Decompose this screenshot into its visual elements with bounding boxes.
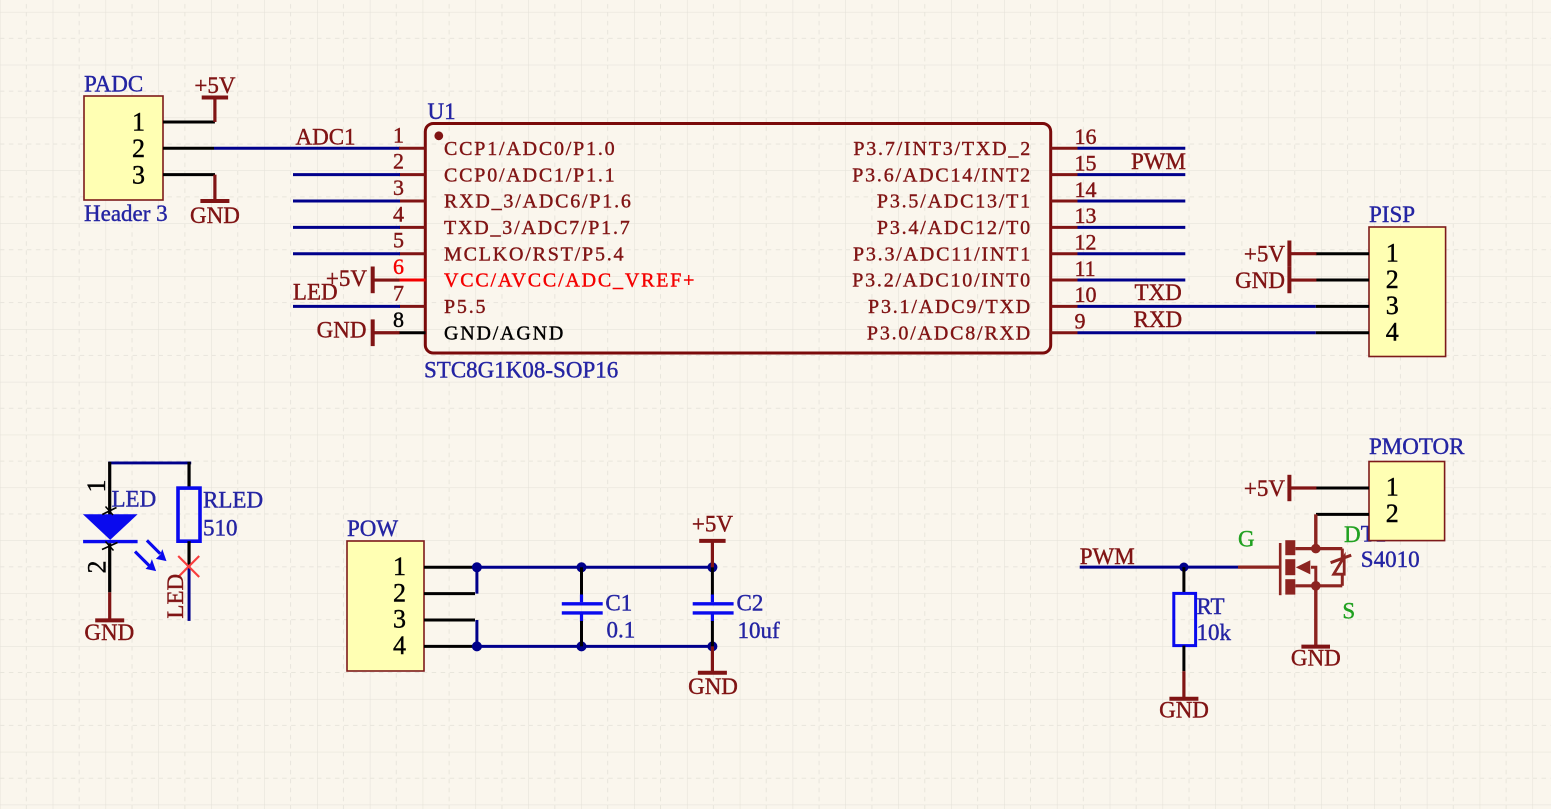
capacitor C2 plates bbox=[693, 604, 734, 613]
svg-text:U1: U1 bbox=[428, 99, 456, 124]
junction bbox=[472, 641, 482, 651]
transistor T1 channel segments bbox=[1285, 540, 1295, 594]
pin PISP-4 bbox=[1316, 331, 1369, 334]
svg-text:6: 6 bbox=[393, 254, 404, 279]
ground symbol bbox=[1169, 671, 1198, 699]
wire from U1 pin 16 bbox=[1078, 147, 1186, 150]
pin POW-3 bbox=[424, 619, 475, 622]
svg-text:P3.0/ADC8/RXD: P3.0/ADC8/RXD bbox=[867, 322, 1032, 344]
capacitor C1 plates bbox=[562, 604, 603, 613]
pin U1-1 stub bbox=[399, 147, 426, 150]
capacitor C1 bottom stub bbox=[580, 614, 583, 622]
wire to U1 pin 2 bbox=[293, 173, 400, 176]
capacitor C2 bottom stub bbox=[711, 614, 714, 622]
power +5V bar (PMOTOR pin1) bbox=[1289, 475, 1316, 501]
wire POW pin2 to rail bbox=[475, 567, 478, 593]
pin PMOTOR-2 bbox=[1316, 513, 1369, 516]
wire net LED vertical bbox=[188, 567, 191, 621]
svg-text:1: 1 bbox=[82, 480, 111, 493]
svg-text:GND: GND bbox=[1235, 268, 1285, 293]
capacitor C1 top stub bbox=[580, 595, 583, 603]
svg-text:+5V: +5V bbox=[692, 512, 733, 537]
svg-text:8: 8 bbox=[393, 307, 404, 332]
svg-text:4: 4 bbox=[1386, 317, 1399, 346]
svg-text:P3.7/INT3/TXD_2: P3.7/INT3/TXD_2 bbox=[853, 138, 1032, 160]
LED D1 pin 2 tick mark bbox=[102, 542, 118, 551]
resistor RLED top lead bbox=[187, 462, 190, 489]
LED D1 light arrow 2 bbox=[135, 552, 156, 572]
svg-text:C2: C2 bbox=[737, 591, 764, 616]
IC U1 pin-1 marker dot bbox=[434, 131, 443, 140]
svg-text:S: S bbox=[1342, 599, 1355, 624]
wire to U1 pin 4 bbox=[293, 226, 400, 229]
svg-text:GND: GND bbox=[1291, 646, 1341, 671]
svg-text:13: 13 bbox=[1075, 203, 1097, 228]
svg-text:10: 10 bbox=[1075, 282, 1097, 307]
ground GND bar (PISP pin2) bbox=[1289, 267, 1316, 293]
junction bbox=[472, 562, 482, 572]
connector POW body bbox=[347, 541, 424, 671]
svg-text:TXD_3/ADC7/P1.7: TXD_3/ADC7/P1.7 bbox=[444, 217, 632, 239]
svg-text:C1: C1 bbox=[605, 591, 632, 616]
svg-text:P3.5/ADC13/T1: P3.5/ADC13/T1 bbox=[877, 191, 1032, 213]
transistor T1 drain pin up bbox=[1314, 514, 1317, 548]
pin U1-13 stub bbox=[1051, 226, 1078, 229]
wire from U1 pin 12 bbox=[1078, 252, 1186, 255]
power +5V bar (U1 pin6) bbox=[373, 267, 400, 294]
junction bbox=[577, 641, 587, 651]
connector PMOTOR body bbox=[1369, 462, 1445, 541]
resistor RT top lead bbox=[1182, 567, 1185, 593]
pin U1-6 stub bbox=[399, 279, 426, 282]
svg-text:+5V: +5V bbox=[1244, 476, 1285, 501]
svg-text:4: 4 bbox=[393, 201, 404, 226]
svg-text:GND: GND bbox=[317, 318, 367, 343]
transistor T1 source down lead bbox=[1314, 586, 1317, 647]
power +5V symbol bbox=[699, 541, 725, 567]
pin U1-5 stub bbox=[399, 252, 426, 255]
svg-text:G: G bbox=[1238, 527, 1255, 552]
LED D1 light arrow 1 bbox=[147, 540, 167, 561]
wire from U1 pin 14 bbox=[1078, 200, 1186, 203]
svg-text:+5V: +5V bbox=[1244, 241, 1285, 266]
svg-text:CCP1/ADC0/P1.0: CCP1/ADC0/P1.0 bbox=[444, 138, 616, 160]
svg-text:0.1: 0.1 bbox=[607, 618, 636, 643]
svg-text:STC8G1K08-SOP16: STC8G1K08-SOP16 bbox=[424, 358, 618, 383]
wire net PWM bbox=[1080, 566, 1238, 569]
transistor T1 arrow connector bbox=[1311, 567, 1316, 586]
transistor T1 gate lead bbox=[1238, 565, 1282, 568]
svg-text:3: 3 bbox=[393, 605, 406, 634]
pin U1-16 stub bbox=[1051, 147, 1078, 150]
pin PISP-3 bbox=[1316, 305, 1369, 308]
svg-text:MCLKO/RST/P5.4: MCLKO/RST/P5.4 bbox=[444, 243, 625, 265]
pin U1-10 stub bbox=[1051, 305, 1078, 308]
pin POW-4 bbox=[424, 645, 475, 648]
svg-text:1: 1 bbox=[132, 108, 145, 137]
svg-text:D: D bbox=[1344, 522, 1361, 547]
junction source bbox=[1311, 581, 1321, 591]
svg-text:+5V: +5V bbox=[326, 266, 367, 291]
wire to U1 pin 3 bbox=[293, 200, 400, 203]
svg-text:RT: RT bbox=[1197, 594, 1225, 619]
power +5V symbol bbox=[202, 98, 228, 122]
pin U1-8 stub bbox=[399, 331, 426, 334]
junction drain bbox=[1311, 544, 1321, 554]
no-ERC marker cross bbox=[178, 556, 199, 577]
wire +5V top rail bbox=[475, 566, 713, 569]
svg-text:GND/AGND: GND/AGND bbox=[444, 322, 565, 344]
capacitor C1 bottom lead bbox=[580, 621, 583, 646]
wire POW pin3 to rail bbox=[475, 620, 478, 646]
resistor RLED body bbox=[178, 488, 200, 541]
ground GND bar (U1 pin8) bbox=[373, 319, 400, 346]
svg-text:2: 2 bbox=[1386, 265, 1399, 294]
LED D1 triangle bbox=[83, 514, 138, 540]
ground symbol bbox=[200, 175, 229, 201]
svg-text:9: 9 bbox=[1075, 309, 1086, 334]
wire to U1 pin 7 bbox=[293, 305, 400, 308]
svg-text:3: 3 bbox=[1386, 291, 1399, 320]
svg-text:S4010: S4010 bbox=[1361, 547, 1420, 572]
wire from U1 pin 13 bbox=[1078, 226, 1186, 229]
pin U1-3 stub bbox=[399, 200, 426, 203]
svg-text:VCC/AVCC/ADC_VREF+: VCC/AVCC/ADC_VREF+ bbox=[444, 270, 696, 292]
capacitor C2 top lead bbox=[711, 567, 714, 595]
svg-text:2: 2 bbox=[393, 578, 406, 607]
svg-text:PADC: PADC bbox=[84, 72, 143, 97]
pin U1-7 stub bbox=[399, 305, 426, 308]
svg-text:4: 4 bbox=[393, 631, 406, 660]
wire LED top bbox=[108, 461, 191, 464]
svg-text:PWM: PWM bbox=[1131, 149, 1186, 174]
capacitor C1 top lead bbox=[580, 567, 583, 595]
svg-text:RXD_3/ADC6/P1.6: RXD_3/ADC6/P1.6 bbox=[444, 191, 633, 213]
transistor T1 gate bar bbox=[1279, 543, 1282, 595]
LED D1 pin 1 tick mark bbox=[102, 507, 116, 516]
svg-text:LED: LED bbox=[163, 574, 188, 619]
svg-text:1: 1 bbox=[1386, 238, 1399, 267]
svg-text:3: 3 bbox=[132, 160, 145, 189]
svg-text:LED: LED bbox=[112, 487, 157, 512]
svg-text:P3.4/ADC12/T0: P3.4/ADC12/T0 bbox=[877, 217, 1032, 239]
pin U1-9 stub bbox=[1051, 331, 1078, 334]
pin PADC-2 bbox=[163, 147, 214, 150]
transistor T1 body diode branch bbox=[1331, 549, 1352, 586]
svg-text:PMOTOR: PMOTOR bbox=[1369, 434, 1465, 459]
resistor RT bottom lead bbox=[1182, 646, 1185, 672]
svg-text:7: 7 bbox=[393, 280, 404, 305]
pin U1-11 stub bbox=[1051, 279, 1078, 282]
connector PADC body bbox=[84, 96, 163, 200]
svg-text:PWM: PWM bbox=[1080, 544, 1135, 569]
capacitor C2 bottom lead bbox=[711, 621, 714, 646]
svg-text:11: 11 bbox=[1075, 256, 1096, 281]
svg-text:RXD: RXD bbox=[1134, 307, 1183, 332]
pin PADC-1 bbox=[163, 120, 215, 123]
svg-text:CCP0/ADC1/P1.1: CCP0/ADC1/P1.1 bbox=[444, 164, 616, 186]
svg-text:10uf: 10uf bbox=[738, 618, 781, 643]
svg-text:+5V: +5V bbox=[194, 73, 235, 98]
junction bbox=[577, 562, 587, 572]
svg-text:GND: GND bbox=[1159, 698, 1209, 723]
wire from U1 pin 15 bbox=[1078, 173, 1186, 176]
svg-text:RLED: RLED bbox=[203, 487, 263, 512]
svg-text:P5.5: P5.5 bbox=[444, 296, 487, 318]
wire net RXD bbox=[1078, 331, 1316, 334]
svg-text:2: 2 bbox=[132, 134, 145, 163]
ground symbol bbox=[698, 646, 727, 672]
svg-text:14: 14 bbox=[1075, 177, 1097, 202]
pin PMOTOR-1 bbox=[1316, 487, 1369, 490]
svg-text:P3.6/ADC14/INT2: P3.6/ADC14/INT2 bbox=[852, 164, 1032, 186]
svg-text:GND: GND bbox=[84, 620, 134, 645]
svg-text:PISP: PISP bbox=[1369, 202, 1415, 227]
pin U1-12 stub bbox=[1051, 252, 1078, 255]
junction bbox=[707, 562, 717, 572]
transistor T1 substrate arrow bbox=[1296, 560, 1311, 574]
power +5V bar (PISP pin1) bbox=[1289, 241, 1316, 267]
capacitor C2 top stub bbox=[711, 595, 714, 603]
svg-text:2: 2 bbox=[393, 149, 404, 174]
svg-text:TXD: TXD bbox=[1135, 280, 1182, 305]
resistor RLED bottom lead bbox=[187, 541, 190, 566]
LED D1 cathode bar bbox=[83, 540, 138, 543]
pin U1-14 stub bbox=[1051, 200, 1078, 203]
svg-text:3: 3 bbox=[393, 175, 404, 200]
svg-text:2: 2 bbox=[83, 561, 112, 574]
svg-text:P3.1/ADC9/TXD: P3.1/ADC9/TXD bbox=[868, 296, 1032, 318]
LED D1 pin 2 lead bbox=[108, 543, 111, 592]
junction bbox=[707, 641, 717, 651]
transistor T1 drain lead bbox=[1295, 547, 1342, 550]
svg-text:12: 12 bbox=[1075, 230, 1097, 255]
IC U1 body bbox=[425, 124, 1050, 354]
pin U1-4 stub bbox=[399, 226, 426, 229]
transistor T1 source lead bbox=[1295, 584, 1342, 587]
wire net TXD bbox=[1078, 305, 1316, 308]
ground bar (T1 source) bbox=[1301, 645, 1330, 649]
svg-text:Header 3: Header 3 bbox=[84, 201, 168, 226]
pin PADC-3 bbox=[163, 173, 215, 176]
svg-text:P3.3/ADC11/INT1: P3.3/ADC11/INT1 bbox=[853, 243, 1032, 265]
ground symbol bbox=[95, 592, 124, 620]
svg-text:15: 15 bbox=[1075, 150, 1097, 175]
svg-text:GND: GND bbox=[190, 203, 240, 228]
pin U1-2 stub bbox=[399, 173, 426, 176]
connector PISP body bbox=[1369, 227, 1446, 357]
svg-text:2: 2 bbox=[1386, 499, 1399, 528]
pin POW-2 bbox=[424, 592, 475, 595]
svg-text:5: 5 bbox=[393, 228, 404, 253]
svg-text:10k: 10k bbox=[1197, 620, 1232, 645]
svg-text:P3.2/ADC10/INT0: P3.2/ADC10/INT0 bbox=[852, 270, 1032, 292]
wire GND bottom rail bbox=[475, 645, 713, 648]
pin POW-1 bbox=[424, 566, 475, 569]
svg-text:510: 510 bbox=[203, 515, 238, 540]
wire to U1 pin 5 bbox=[293, 252, 400, 255]
svg-text:ADC1: ADC1 bbox=[296, 124, 356, 149]
svg-text:1: 1 bbox=[393, 552, 406, 581]
svg-text:POW: POW bbox=[347, 516, 398, 541]
pin U1-15 stub bbox=[1051, 173, 1078, 176]
wire from U1 pin 11 bbox=[1078, 279, 1186, 282]
wire net ADC1 bbox=[214, 147, 400, 150]
LED D1 pin 1 lead bbox=[108, 462, 111, 515]
svg-text:16: 16 bbox=[1075, 124, 1097, 149]
pin PISP-2 bbox=[1316, 279, 1369, 282]
svg-text:1: 1 bbox=[1386, 473, 1399, 502]
svg-text:GND: GND bbox=[688, 674, 738, 699]
resistor RT body bbox=[1174, 593, 1196, 645]
pin PISP-1 bbox=[1316, 252, 1369, 255]
svg-text:1: 1 bbox=[393, 122, 404, 147]
junction PWM/RT bbox=[1179, 563, 1188, 572]
